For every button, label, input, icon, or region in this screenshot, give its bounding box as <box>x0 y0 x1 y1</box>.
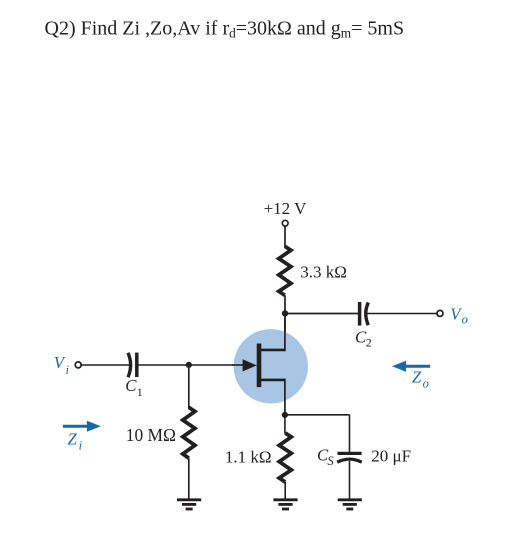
label Zi <box>68 429 83 452</box>
svg-text:i: i <box>66 363 70 377</box>
resistor RG 10 MOhm <box>183 407 195 458</box>
svg-text:C: C <box>125 376 137 395</box>
svg-text:Z: Z <box>412 368 422 387</box>
svg-text:1: 1 <box>137 385 143 399</box>
svg-text:Z: Z <box>68 429 78 448</box>
capacitor C2 <box>360 302 369 326</box>
label Zo <box>412 368 429 391</box>
svg-text:o: o <box>423 377 429 391</box>
wire C1 to gate <box>139 364 248 366</box>
label CS <box>317 446 334 468</box>
svg-text:i: i <box>79 439 83 453</box>
label 20 uF value <box>371 447 411 466</box>
wire source node to CS <box>285 415 350 452</box>
ground RG <box>177 500 201 509</box>
label +12 V supply <box>264 199 308 218</box>
wire source node to RS <box>284 415 286 434</box>
label 3.3 kOhm value <box>300 262 347 281</box>
wire C2 to Vo terminal <box>367 313 437 315</box>
arrow Zi <box>63 421 101 432</box>
svg-text:10 MΩ: 10 MΩ <box>126 425 176 445</box>
resistor RS 1.1 kOhm <box>279 433 291 482</box>
svg-text:V: V <box>450 304 462 323</box>
node gate junction <box>186 362 192 368</box>
label Vi <box>54 353 70 377</box>
svg-text:1.1 kΩ: 1.1 kΩ <box>225 448 272 467</box>
svg-text:20 μF: 20 μF <box>371 447 411 466</box>
terminal +12 V <box>282 220 288 226</box>
wire drain lead <box>261 314 285 352</box>
terminal Vi <box>75 362 81 368</box>
svg-text:Q2) Find Zi ,Zo,Av if rd=30kΩ: Q2) Find Zi ,Zo,Av if rd=30kΩ and gm= 5m… <box>45 18 405 41</box>
ground CS <box>338 500 362 509</box>
node drain junction <box>282 310 288 316</box>
svg-text:o: o <box>462 313 468 327</box>
svg-text:3.3 kΩ: 3.3 kΩ <box>300 262 347 281</box>
wire CS to ground <box>349 461 351 499</box>
wire gate lead over highlight <box>232 364 245 366</box>
title question text <box>45 18 405 41</box>
svg-text:+12 V: +12 V <box>264 199 308 218</box>
arrow Zo <box>392 361 430 372</box>
transistor Q1 JFET gate arrow <box>243 359 257 371</box>
wire RS to ground <box>284 482 286 499</box>
label C1 <box>125 376 143 399</box>
capacitor CS bypass <box>337 453 362 462</box>
node source junction <box>282 412 288 418</box>
wire RG to ground <box>188 458 190 499</box>
wire RD to drain node <box>284 295 286 350</box>
label Vo <box>450 304 468 326</box>
label 10 MOhm value <box>126 425 176 445</box>
svg-text:V: V <box>54 353 66 372</box>
ground RS <box>273 500 297 509</box>
wire drain node to C2 <box>285 313 358 315</box>
wire supply to RD <box>284 226 286 247</box>
terminal Vo <box>437 310 443 316</box>
resistor RD 3.3 kOhm <box>279 246 291 295</box>
svg-text:2: 2 <box>366 336 372 350</box>
wire Vi to C1 <box>82 364 129 366</box>
wire source lead <box>261 379 285 415</box>
svg-text:S: S <box>327 454 334 468</box>
transistor Q1 JFET channel bar <box>257 344 262 388</box>
wire gate node to RG <box>188 365 190 408</box>
capacitor C1 <box>128 353 137 378</box>
transistor Q1 highlight circle <box>234 329 308 403</box>
label C2 <box>355 327 372 349</box>
label 1.1 kOhm value <box>225 448 272 467</box>
